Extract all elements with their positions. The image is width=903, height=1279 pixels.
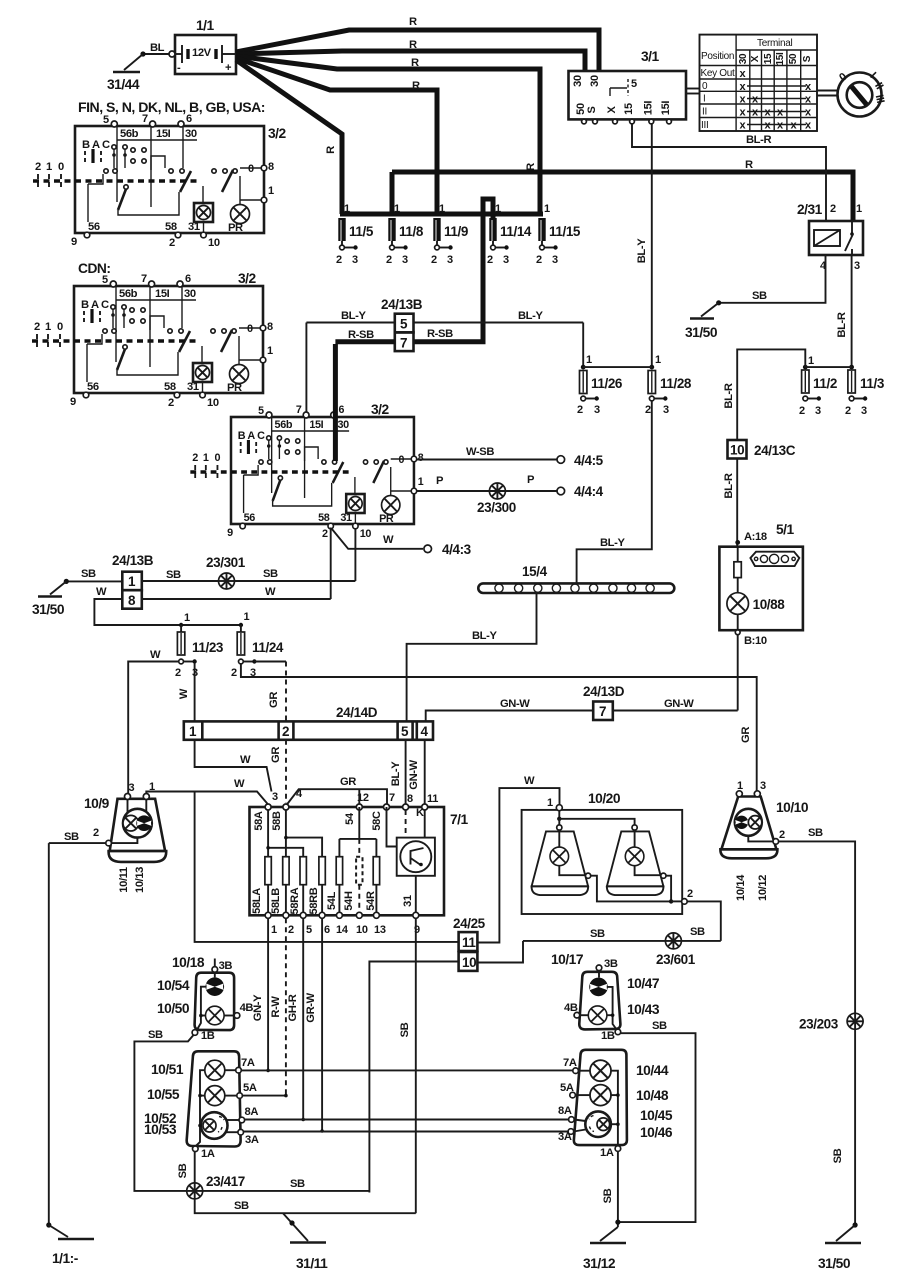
svg-text:BL-R: BL-R [836,312,848,337]
svg-text:2: 2 [779,829,785,841]
svg-text:1: 1 [271,924,277,936]
svg-text:1: 1 [856,203,862,215]
svg-text:P: P [527,474,535,486]
svg-text:BL: BL [150,42,165,54]
svg-text:2: 2 [431,254,437,266]
svg-text:SB: SB [752,290,767,302]
svg-text:2: 2 [282,724,289,739]
svg-text:1: 1 [439,203,445,215]
svg-text:4B: 4B [240,1002,254,1014]
svg-text:3: 3 [861,405,867,417]
svg-text:10/44: 10/44 [636,1063,669,1078]
svg-text:2: 2 [577,404,583,416]
svg-text:1/1: 1/1 [196,18,215,33]
svg-text:GN-W: GN-W [500,698,530,710]
svg-text:54L: 54L [326,891,338,910]
svg-text:SB: SB [166,569,181,581]
svg-text:X: X [750,55,761,62]
svg-text:W: W [524,775,535,787]
svg-text:23/300: 23/300 [477,500,516,515]
svg-text:x: x [805,81,812,93]
svg-text:BL-Y: BL-Y [636,238,648,263]
svg-text:1A: 1A [201,1148,215,1160]
svg-text:23/601: 23/601 [656,952,696,967]
svg-text:58LB: 58LB [270,888,282,914]
svg-text:24/25: 24/25 [453,916,486,931]
svg-text:2: 2 [830,203,836,215]
svg-text:10/14: 10/14 [735,874,747,901]
svg-text:7/1: 7/1 [450,812,469,827]
svg-text:7: 7 [389,792,395,804]
svg-text:BL-R: BL-R [746,134,771,146]
svg-text:R: R [325,146,337,154]
svg-text:5A: 5A [243,1082,257,1094]
svg-text:3/2: 3/2 [268,126,287,141]
svg-text:3B: 3B [219,960,233,972]
svg-text:3: 3 [663,404,669,416]
svg-text:GR: GR [270,747,282,763]
svg-text:3: 3 [854,260,860,272]
svg-text:1: 1 [547,797,553,809]
svg-text:24/13C: 24/13C [754,443,796,458]
svg-text:1: 1 [808,355,814,367]
svg-text:x: x [752,94,759,106]
svg-text:3: 3 [447,254,453,266]
svg-text:11/5: 11/5 [349,224,374,239]
svg-text:10/13: 10/13 [134,867,146,893]
svg-text:31/50: 31/50 [32,602,65,617]
svg-text:1: 1 [737,780,743,792]
svg-text:31/44: 31/44 [107,77,140,92]
svg-text:S: S [586,106,598,113]
svg-text:FIN, S, N, DK, NL, B, GB, USA:: FIN, S, N, DK, NL, B, GB, USA: [78,100,265,115]
svg-text:24/14D: 24/14D [336,705,378,720]
svg-text:W: W [96,586,107,598]
svg-text:12V: 12V [192,47,212,59]
svg-text:1/1:-: 1/1:- [52,1251,79,1266]
svg-text:SB: SB [81,568,96,580]
svg-text:1: 1 [655,354,661,366]
svg-text:3B: 3B [604,958,618,970]
svg-text:R: R [409,39,417,51]
svg-text:2: 2 [93,827,99,839]
svg-text:2: 2 [231,667,237,679]
svg-text:BL-Y: BL-Y [341,310,366,322]
svg-text:SB: SB [690,926,705,938]
svg-text:2: 2 [687,888,693,900]
svg-text:III: III [701,120,708,131]
svg-text:1: 1 [495,203,501,215]
svg-text:GH-R: GH-R [287,994,299,1021]
svg-text:31/50: 31/50 [685,325,718,340]
svg-text:58B: 58B [271,811,283,831]
svg-text:SB: SB [148,1029,163,1041]
svg-text:14: 14 [336,924,349,936]
svg-text:30: 30 [738,53,749,64]
svg-text:x: x [740,68,747,80]
svg-text:15: 15 [623,103,635,115]
svg-text:58RB: 58RB [308,887,320,914]
svg-text:2: 2 [845,405,851,417]
svg-text:50: 50 [788,53,799,64]
svg-text:1: 1 [184,612,190,624]
svg-text:x: x [791,120,798,132]
svg-text:1: 1 [544,203,550,215]
svg-text:3A: 3A [245,1134,259,1146]
svg-text:7: 7 [599,704,606,719]
svg-text:X: X [606,106,618,114]
svg-text:5: 5 [631,78,637,90]
svg-text:3: 3 [815,405,821,417]
svg-text:x: x [805,120,812,132]
svg-text:GR: GR [268,692,280,708]
svg-text:1: 1 [344,203,350,215]
svg-text:4/4:5: 4/4:5 [574,453,604,468]
svg-text:2: 2 [336,254,342,266]
svg-text:7A: 7A [241,1057,255,1069]
svg-text:5A: 5A [560,1082,574,1094]
svg-text:10/50: 10/50 [157,1001,190,1016]
svg-text:R: R [411,57,419,69]
svg-text:11/26: 11/26 [591,376,623,391]
svg-text:II: II [702,107,707,118]
svg-text:2: 2 [288,924,294,936]
svg-text:0: 0 [702,81,708,92]
svg-text:3/2: 3/2 [371,402,390,417]
svg-text:W: W [265,586,276,598]
svg-text:10: 10 [730,443,744,458]
svg-text:8A: 8A [245,1106,259,1118]
svg-text:7A: 7A [563,1057,577,1069]
svg-text:10/45: 10/45 [640,1108,673,1123]
svg-text:11/9: 11/9 [444,224,468,239]
svg-text:10/11: 10/11 [118,867,130,893]
svg-text:BL-R: BL-R [723,383,735,408]
svg-text:10/20: 10/20 [588,791,621,806]
svg-text:GN-W: GN-W [408,759,420,789]
svg-text:x: x [740,107,747,119]
svg-text:54R: 54R [365,891,377,911]
svg-text:5: 5 [306,924,312,936]
svg-text:11/2: 11/2 [813,376,837,391]
svg-text:10/10: 10/10 [776,800,809,815]
svg-text:54H: 54H [343,891,355,911]
svg-text:8: 8 [128,593,136,608]
svg-text:58LA: 58LA [251,888,263,914]
svg-text:11/3: 11/3 [860,376,885,391]
svg-text:11/8: 11/8 [399,224,424,239]
svg-text:10/18: 10/18 [172,955,205,970]
svg-text:4/4:4: 4/4:4 [574,484,604,499]
svg-text:11/28: 11/28 [660,376,692,391]
svg-text:R: R [409,16,417,28]
svg-text:SB: SB [290,1178,305,1190]
svg-text:1: 1 [394,203,400,215]
svg-text:GN-Y: GN-Y [252,994,264,1021]
svg-text:x: x [805,107,812,119]
svg-text:2: 2 [645,404,651,416]
svg-text:W: W [178,688,190,699]
svg-text:10/12: 10/12 [757,875,769,901]
svg-text:GR: GR [740,727,752,743]
svg-text:3/1: 3/1 [641,49,660,64]
svg-text:3A: 3A [558,1131,572,1143]
svg-text:2: 2 [799,405,805,417]
svg-text:23/301: 23/301 [206,555,246,570]
svg-text:GR-W: GR-W [305,992,317,1022]
svg-text:4B: 4B [564,1002,578,1014]
svg-text:10/88: 10/88 [753,597,786,612]
svg-text:W: W [383,534,394,546]
svg-text:BL-Y: BL-Y [600,537,625,549]
svg-text:A:18: A:18 [744,531,767,543]
svg-text:31: 31 [402,895,414,907]
svg-text:5: 5 [401,724,409,739]
svg-text:W: W [240,754,251,766]
svg-text:24/13B: 24/13B [112,553,154,568]
svg-text:58RA: 58RA [289,887,301,914]
svg-text:3: 3 [402,254,408,266]
svg-text:2/31: 2/31 [797,202,823,217]
svg-text:1A: 1A [600,1147,614,1159]
svg-text:11/14: 11/14 [500,224,532,239]
svg-text:13: 13 [374,924,386,936]
svg-text:2: 2 [175,667,181,679]
svg-text:3: 3 [272,791,278,803]
svg-text:1: 1 [586,354,592,366]
svg-text:4/4:3: 4/4:3 [442,542,472,557]
svg-text:11/23: 11/23 [192,640,224,655]
svg-text:10/51: 10/51 [151,1062,184,1077]
svg-text:7: 7 [400,336,407,351]
svg-text:24/13B: 24/13B [381,297,423,312]
svg-text:10: 10 [356,924,368,936]
svg-text:4: 4 [421,724,429,739]
svg-text:10/47: 10/47 [627,976,660,991]
svg-text:3: 3 [552,254,558,266]
svg-text:10/54: 10/54 [157,978,190,993]
svg-text:BL-Y: BL-Y [390,761,402,786]
svg-text:R-W: R-W [270,996,282,1018]
svg-text:15I: 15I [775,52,786,66]
svg-text:11/15: 11/15 [549,224,581,239]
svg-text:30: 30 [589,75,601,87]
svg-text:8A: 8A [558,1105,572,1117]
svg-text:10/9: 10/9 [84,796,110,811]
svg-text:15/4: 15/4 [522,564,548,579]
svg-text:x: x [765,107,772,119]
svg-text:GN-W: GN-W [664,698,694,710]
svg-text:BL-R: BL-R [723,473,735,498]
svg-text:Key Out: Key Out [701,68,736,79]
svg-text:Position: Position [701,51,734,62]
svg-text:x: x [740,120,747,132]
svg-text:54: 54 [344,812,356,825]
svg-text:x: x [740,94,747,106]
svg-text:SB: SB [602,1188,614,1203]
svg-text:W-SB: W-SB [466,446,494,458]
svg-text:6: 6 [324,924,330,936]
svg-text:SB: SB [399,1022,411,1037]
svg-text:2: 2 [386,254,392,266]
svg-text:BL-Y: BL-Y [472,630,497,642]
svg-text:8: 8 [407,793,413,805]
svg-text:15: 15 [763,53,774,64]
svg-text:15I: 15I [660,101,672,116]
svg-text:11/24: 11/24 [252,640,284,655]
svg-text:R-SB: R-SB [427,328,453,340]
svg-text:SB: SB [234,1200,249,1212]
svg-text:10/55: 10/55 [147,1087,180,1102]
svg-text:+: + [225,62,232,74]
svg-text:S: S [802,55,813,62]
svg-text:x: x [805,94,812,106]
svg-text:P: P [436,475,444,487]
svg-text:3: 3 [594,404,600,416]
svg-text:1: 1 [128,574,136,589]
svg-text:11: 11 [427,793,438,805]
svg-text:x: x [740,81,747,93]
svg-text:Terminal: Terminal [757,38,792,49]
svg-text:10/48: 10/48 [636,1088,669,1103]
svg-text:3: 3 [352,254,358,266]
svg-text:B:10: B:10 [744,635,767,647]
svg-text:23/203: 23/203 [799,1017,839,1032]
svg-text:GR: GR [340,776,356,788]
svg-text:1B: 1B [201,1030,215,1042]
svg-text:SB: SB [808,827,823,839]
svg-text:R: R [412,80,420,92]
svg-text:15I: 15I [642,101,654,116]
svg-text:SB: SB [590,928,605,940]
svg-text:R: R [745,159,753,171]
svg-text:2: 2 [536,254,542,266]
svg-text:10/43: 10/43 [627,1002,660,1017]
svg-text:x: x [777,107,784,119]
svg-text:58A: 58A [253,811,265,831]
svg-text:30: 30 [572,75,584,87]
svg-text:I: I [703,94,705,105]
svg-text:1B: 1B [601,1030,615,1042]
svg-text:31/12: 31/12 [583,1256,616,1271]
svg-text:10/53: 10/53 [144,1122,177,1137]
svg-text:3: 3 [503,254,509,266]
svg-text:31/50: 31/50 [818,1256,851,1271]
svg-text:31/11: 31/11 [296,1256,328,1271]
svg-text:1: 1 [244,611,250,623]
svg-text:10: 10 [462,955,476,970]
svg-text:10/46: 10/46 [640,1125,673,1140]
svg-text:2: 2 [487,254,493,266]
svg-text:SB: SB [652,1020,667,1032]
svg-text:SB: SB [832,1148,844,1163]
svg-text:1: 1 [189,724,197,739]
svg-text:SB: SB [263,568,278,580]
svg-text:W: W [234,778,245,790]
svg-text:23/417: 23/417 [206,1174,245,1189]
svg-text:3/2: 3/2 [238,271,257,286]
svg-text:5: 5 [400,317,408,332]
svg-text:SB: SB [64,831,79,843]
svg-text:5/1: 5/1 [776,522,795,537]
svg-text:10/17: 10/17 [551,952,584,967]
svg-text:W: W [150,649,161,661]
svg-text:R-SB: R-SB [348,329,374,341]
svg-text:3: 3 [129,782,135,794]
svg-text:x: x [765,120,772,132]
svg-text:SB: SB [177,1163,189,1178]
svg-text:11: 11 [462,935,476,950]
svg-text:x: x [752,107,759,119]
svg-text:24/13D: 24/13D [583,684,625,699]
svg-text:3: 3 [760,780,766,792]
svg-text:BL-Y: BL-Y [518,310,543,322]
svg-text:x: x [777,120,784,132]
svg-text:58C: 58C [371,811,383,831]
svg-text:K: K [416,807,424,819]
